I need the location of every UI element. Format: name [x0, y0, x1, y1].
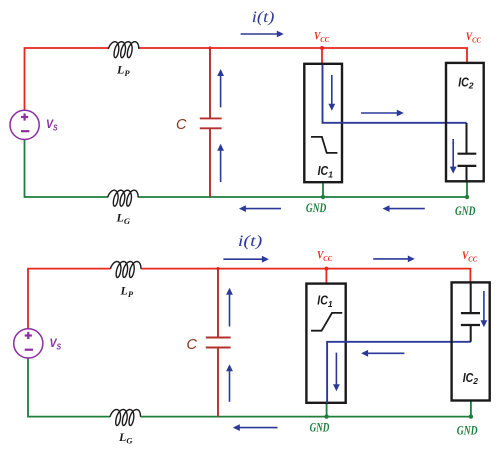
current arrow up above C (diagram 2)	[229, 293, 231, 326]
current arrow up below C (diagram 2)	[229, 370, 231, 402]
svg-text:GND: GND	[306, 201, 326, 215]
svg-text:LP: LP	[120, 284, 134, 300]
capacitor inside IC2 (diagram 2)	[461, 282, 480, 341]
current arrow right between ICs (diagram 1)	[361, 112, 398, 114]
wire: IC2 ground drop (diagram 2)	[470, 400, 472, 417]
node cap junction dot (diagram 1)	[208, 46, 211, 49]
current arrow left between ICs (diagram 2)	[367, 352, 405, 354]
wire: Vcc drop to IC1 (diagram 1)	[321, 48, 323, 65]
wire: Vcc drop to IC1 (diagram 2)	[325, 269, 327, 284]
current arrow down inside IC2 (diagram 2)	[483, 291, 485, 322]
IC2 block (diagram 2)	[452, 282, 490, 400]
current arrow right i(t) (diagram 2)	[223, 258, 263, 260]
wire: top red rail (diagram 2)	[28, 269, 470, 329]
voltage source VS (diagram 2)	[14, 329, 43, 358]
svg-text:GND: GND	[310, 420, 330, 434]
svg-text:IC2: IC2	[463, 371, 479, 386]
current arrow left on ground rail (diagram 2)	[238, 427, 277, 429]
current arrow up below C (diagram 1)	[220, 149, 222, 182]
current arrow right on top rail between ICs (diagram 2)	[373, 258, 409, 260]
current arrow down inside IC2 (diagram 1)	[452, 139, 454, 168]
inductor LG (diagram 1)	[108, 190, 139, 206]
wire: bottom green rail (diagram 2)	[28, 358, 471, 417]
svg-text:C: C	[176, 117, 187, 133]
node GND junction dot IC1 (diagram 2)	[324, 414, 328, 418]
wire: IC2 ground drop (diagram 1)	[466, 181, 468, 197]
current arrow left on ground rail, right (diagram 1)	[388, 208, 425, 210]
current arrow down inside IC1 (diagram 1)	[331, 75, 333, 105]
IC2 block (diagram 1)	[446, 63, 484, 181]
svg-text:LG: LG	[118, 430, 133, 446]
wire: IC1 ground drop (diagram 1)	[322, 182, 324, 197]
rising-edge symbol inside IC1 (diagram 2)	[311, 313, 342, 331]
inductor LP (diagram 2)	[110, 262, 140, 278]
wire: blue return path IC2 to IC1 (diagram 2)	[327, 342, 471, 403]
svg-text:IC2: IC2	[458, 75, 474, 90]
svg-text:VCC: VCC	[466, 31, 482, 45]
current arrow up above C (diagram 1)	[220, 75, 222, 108]
node Vcc junction dot (diagram 2)	[324, 267, 328, 271]
svg-text:C: C	[187, 337, 198, 353]
node cap junction dot (diagram 2)	[216, 267, 219, 270]
node GND junction dot IC2 (diagram 2)	[469, 414, 473, 418]
inductor LP (diagram 1)	[108, 42, 139, 58]
current arrow left on ground rail, left (diagram 1)	[244, 208, 281, 210]
inductor LG (diagram 2)	[110, 410, 141, 426]
current arrow right i(t) (diagram 1)	[241, 33, 279, 35]
capacitor C (diagram 2)	[206, 269, 231, 417]
svg-text:IC1: IC1	[317, 294, 333, 309]
svg-text:VS: VS	[46, 119, 58, 133]
svg-text:LP: LP	[116, 63, 130, 79]
svg-text:i(t): i(t)	[238, 233, 262, 250]
falling-edge symbol inside IC1 (diagram 1)	[311, 137, 337, 153]
node Vcc junction dot (diagram 1, IC1)	[320, 46, 324, 50]
svg-text:LG: LG	[116, 211, 131, 227]
capacitor inside IC2 (diagram 1)	[458, 123, 477, 181]
wire: top red rail (diagram 1)	[25, 48, 468, 111]
op-amp IC1 block (diagram 1)	[304, 64, 342, 182]
wire: blue decoupling path IC1 to IC2 (diagram 1)	[323, 65, 467, 123]
voltage source VS (diagram 1)	[10, 110, 39, 139]
svg-text:GND: GND	[457, 423, 478, 437]
wire: IC1 ground drop (diagram 2)	[326, 403, 328, 417]
node GND junction dot IC1 (diagram 1)	[321, 195, 325, 199]
svg-text:VCC: VCC	[317, 250, 333, 264]
svg-text:VCC: VCC	[462, 250, 478, 264]
node GND junction dot IC2 (diagram 1)	[465, 195, 469, 199]
wire: bottom green rail (diagram 1)	[25, 140, 468, 197]
capacitor C (diagram 1)	[200, 48, 222, 197]
svg-text:GND: GND	[455, 204, 475, 218]
svg-text:VCC: VCC	[314, 31, 330, 45]
current arrow down inside IC1 (diagram 2)	[335, 353, 337, 386]
svg-text:VS: VS	[50, 338, 62, 352]
svg-text:i(t): i(t)	[252, 9, 275, 26]
svg-text:IC1: IC1	[318, 164, 334, 179]
op-amp IC1 block (diagram 2)	[306, 284, 345, 403]
